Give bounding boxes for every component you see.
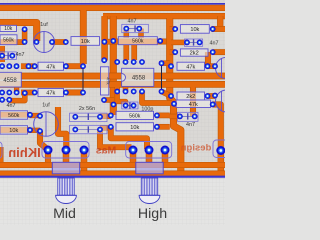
pad R11a xyxy=(168,93,174,99)
pad P1 xyxy=(22,26,28,32)
resistor R3 10k mid xyxy=(71,37,100,46)
wire R13-C6 stub xyxy=(30,113,40,118)
wire 47k4 right elbow xyxy=(213,104,221,149)
pad U2p3 xyxy=(131,59,137,65)
capacitor C10 4n7 xyxy=(178,112,199,121)
wire hi pad1 dn xyxy=(130,150,137,165)
pad R3a xyxy=(63,39,69,45)
wire 56n1-560k2 link xyxy=(100,114,111,119)
svg-text:47k: 47k xyxy=(106,77,111,85)
svg-text:Mas: Mas xyxy=(96,145,117,157)
pad C10b xyxy=(192,114,198,120)
resistor R2 560k xyxy=(0,35,17,45)
jumper link J2 xyxy=(161,63,163,91)
wire IC2pin8 elbow xyxy=(142,92,172,104)
capacitor C5 4n7 xyxy=(2,99,9,101)
pad U2p6 xyxy=(123,89,129,95)
pad R13c xyxy=(154,113,160,119)
wire stub C1 right xyxy=(52,39,66,45)
svg-text:47k: 47k xyxy=(46,91,55,97)
board edge bottom xyxy=(0,176,225,178)
wire R6 left stub xyxy=(170,49,176,55)
wire R7 right trace xyxy=(66,63,83,69)
wire 100p stub a xyxy=(117,92,125,106)
resistor R5 10k tr xyxy=(180,25,209,34)
svg-text:2x 56n: 2x 56n xyxy=(79,106,95,112)
pad U2p4 xyxy=(139,59,145,65)
wire R5 right stub xyxy=(212,26,226,32)
wire R14 left stub xyxy=(0,127,30,133)
pad U2p2 xyxy=(123,59,129,65)
pad J1b xyxy=(80,90,86,96)
wire mid pad1 dn xyxy=(45,150,51,166)
wire mid band 1 xyxy=(0,73,225,80)
pad C1b xyxy=(49,39,55,45)
capacitor C1 1uf xyxy=(34,32,55,53)
pad R14c xyxy=(154,124,160,130)
pad C3b xyxy=(197,40,203,46)
capacitor C2 4n7 xyxy=(122,24,149,32)
wire 56n feed xyxy=(58,107,66,149)
wire hi pad2 dn xyxy=(146,150,153,165)
svg-text:2k2: 2k2 xyxy=(186,94,195,100)
pad C8b xyxy=(97,127,103,133)
pad R3b xyxy=(102,39,108,45)
wire hi pad3 dn xyxy=(162,150,169,165)
pad U2p7 xyxy=(131,89,137,95)
pad R14a xyxy=(27,127,33,133)
pad C6a xyxy=(37,113,43,119)
pad C5b xyxy=(6,97,12,103)
wire 2k2b right stub xyxy=(208,93,216,99)
wire C2b stub dn xyxy=(138,29,144,38)
wire vert VA xyxy=(80,10,87,64)
op-amp U2 4558 xyxy=(122,68,154,86)
pad J1a xyxy=(80,63,86,69)
pad C10a xyxy=(177,114,183,120)
resistor R16 10k xyxy=(0,126,28,134)
pad R5b xyxy=(210,26,216,32)
pad R6b xyxy=(210,49,216,55)
capacitor C7 56n xyxy=(70,113,107,122)
pad J2a xyxy=(159,60,165,66)
pad U1p1 xyxy=(0,63,5,69)
pad R13b xyxy=(108,113,114,119)
svg-text:4n7: 4n7 xyxy=(7,103,16,109)
svg-text:4558: 4558 xyxy=(132,76,146,82)
wire IC2 right pad trace xyxy=(162,60,170,66)
pad C9a xyxy=(123,103,129,109)
wire trace T3 top-left xyxy=(0,23,37,42)
capacitor C8 56n xyxy=(70,125,107,134)
pad R13a xyxy=(27,112,33,118)
svg-text:4n7: 4n7 xyxy=(128,19,137,25)
wire vert V1 from T2 to R9 top xyxy=(101,16,108,60)
potentiometer VR0 outline (partial, off-image left) xyxy=(0,142,2,159)
jumper link J1 xyxy=(82,66,84,92)
pad VR1a xyxy=(44,146,53,155)
wire right vert 2k2-47k xyxy=(205,52,211,66)
resistor R14 10k xyxy=(116,123,154,131)
wire R5 left stub xyxy=(170,26,176,32)
resistor R8 47k xyxy=(177,62,205,70)
pad U1p3 xyxy=(14,63,20,69)
wire C6 down trace xyxy=(40,131,47,149)
resistor R1 10k xyxy=(0,25,17,32)
svg-text:1uf: 1uf xyxy=(40,22,48,28)
wire top rail T2 xyxy=(103,13,225,19)
svg-text:design: design xyxy=(181,143,212,154)
wire left edge drop xyxy=(0,147,4,164)
pad R8a xyxy=(168,63,174,69)
resistor R7 47k xyxy=(38,62,64,70)
pad C2a xyxy=(123,26,129,32)
pad U1p7 xyxy=(14,90,20,96)
wire stub R3mid right xyxy=(105,39,114,45)
wire 4n7-5 left stub xyxy=(170,114,180,119)
wire IC2 pin1 stub dn xyxy=(114,87,120,92)
wire hi link B xyxy=(100,130,132,148)
pad C8a xyxy=(72,127,78,133)
potentiometer VR2 High shaft xyxy=(139,178,160,203)
svg-text:560k: 560k xyxy=(129,113,141,119)
svg-text:10k: 10k xyxy=(9,128,18,134)
wire T2-to-R5 vert xyxy=(217,16,223,28)
wire link pads left col xyxy=(22,29,28,42)
board background xyxy=(0,0,225,179)
resistor R9 vertical xyxy=(101,67,111,95)
pad VR2b xyxy=(145,146,154,155)
svg-text:4n7: 4n7 xyxy=(16,52,25,58)
wire IC1 pin8 elbow xyxy=(9,93,24,101)
svg-text:10k: 10k xyxy=(130,125,139,131)
svg-text:IKhin: IKhin xyxy=(8,145,41,160)
potentiometer VR3 outline (partial) xyxy=(213,140,243,158)
wire 560k2 right stub xyxy=(157,113,170,119)
pad J2b xyxy=(159,89,165,95)
resistor R4 560k xyxy=(118,37,157,45)
pad R9a xyxy=(101,57,107,63)
wire right bus down xyxy=(170,18,181,176)
pad U1p2 xyxy=(6,63,12,69)
pad R11b xyxy=(205,93,211,99)
wire C2a stub dn xyxy=(124,29,130,38)
pad R14b xyxy=(108,124,114,130)
svg-text:10k: 10k xyxy=(4,26,13,32)
pad C12a xyxy=(212,93,218,99)
resistor R12 47k xyxy=(176,100,211,108)
wire IC2 pin2 stub dn xyxy=(123,87,129,92)
pad VR2c xyxy=(161,146,170,155)
svg-text:47k: 47k xyxy=(186,64,195,70)
pad U2p1 xyxy=(114,59,120,65)
pad R12b xyxy=(210,102,216,108)
svg-text:10k: 10k xyxy=(81,39,90,45)
pad C11a xyxy=(212,63,218,69)
pad C6b xyxy=(37,128,43,134)
pad U1p6 xyxy=(6,90,12,96)
svg-text:Mid: Mid xyxy=(53,206,76,222)
resistor R13 560k xyxy=(116,111,154,119)
pad C5a xyxy=(0,97,5,103)
pad R10b xyxy=(63,90,69,96)
svg-text:High: High xyxy=(138,206,167,222)
svg-text:10k: 10k xyxy=(190,27,199,33)
svg-text:560k: 560k xyxy=(132,39,144,45)
pad R5a xyxy=(172,26,178,32)
wire hi link A xyxy=(111,127,147,149)
svg-text:560k: 560k xyxy=(3,38,14,44)
wire IC1 pin7 stub xyxy=(14,87,19,93)
pad R7a xyxy=(32,63,38,69)
wire left edge vert xyxy=(0,46,5,62)
pad C3a xyxy=(184,40,190,46)
pad VR3a xyxy=(216,146,225,155)
wire stub R2 left xyxy=(0,39,25,45)
pad VR2a xyxy=(129,146,138,155)
resistor R10 47k xyxy=(38,89,64,97)
resistor R15 560k xyxy=(0,111,28,119)
svg-text:47k: 47k xyxy=(46,64,55,70)
svg-text:2k2: 2k2 xyxy=(190,51,199,57)
wire mid band 2 xyxy=(0,81,225,88)
wire 56n2-10k4 link xyxy=(100,125,111,130)
svg-text:560k: 560k xyxy=(8,113,20,119)
potentiometer VR1 Mid shaft xyxy=(56,178,77,203)
pad R4b xyxy=(157,38,163,44)
outside background (below board) xyxy=(0,179,225,225)
pad C2b xyxy=(136,26,142,32)
wire 560k row trace xyxy=(113,39,169,45)
wire bottom rail 2 xyxy=(0,171,225,177)
capacitor C11 1uf (partial right edge) xyxy=(216,58,237,79)
wire mid pad3 dn xyxy=(81,150,88,174)
svg-text:1uf: 1uf xyxy=(42,103,50,109)
wire IC2 pin1 stub up xyxy=(123,44,129,60)
wire IC1pin5-R10 xyxy=(21,90,35,96)
board edge top xyxy=(0,3,225,5)
capacitor C6 1uf xyxy=(34,112,59,137)
svg-text:100p: 100p xyxy=(141,106,153,112)
wire vert V2 from T2 to 560k row xyxy=(110,16,117,115)
pad P2 xyxy=(22,39,28,45)
wire R6 right stub xyxy=(213,49,225,55)
wire 47k2 right stub xyxy=(208,63,216,69)
pad C7a xyxy=(72,114,78,120)
pad R9b xyxy=(101,97,107,103)
pad VR1c xyxy=(80,146,89,155)
pad C1a xyxy=(34,39,40,45)
pad C4a xyxy=(0,53,5,59)
pad VR1b xyxy=(62,146,71,155)
wire VR3 pad down xyxy=(218,151,225,175)
op-amp U1 4558 xyxy=(0,72,21,87)
pad R10a xyxy=(32,90,38,96)
wire R9 bottom link xyxy=(104,97,114,103)
svg-text:47k: 47k xyxy=(189,102,198,108)
wire mid pad2 dn xyxy=(63,150,70,164)
wire R14-C6 stub xyxy=(30,128,40,133)
pad R4a xyxy=(110,38,116,44)
pad C4b xyxy=(9,53,15,59)
pad R6a xyxy=(172,49,178,55)
pad VIA1 xyxy=(111,102,117,108)
potentiometer VR1 Mid outline xyxy=(42,142,89,159)
pad R8b xyxy=(205,63,211,69)
wire band2-C10 vert xyxy=(190,87,196,116)
capacitor C9 100p xyxy=(122,102,138,109)
pad PW1 xyxy=(26,63,32,69)
pad U1p5 xyxy=(0,90,5,96)
capacitor C4 4n7 xyxy=(0,52,16,60)
wire IC1pin4-R7 xyxy=(21,63,35,69)
pad U1p8 xyxy=(22,90,28,96)
capacitor C12 1uf (partial right edge) xyxy=(216,90,238,112)
pad U2p8 xyxy=(139,89,145,95)
wire bottom rail 1 xyxy=(0,162,225,168)
potentiometer VR1 Mid body xyxy=(52,162,79,174)
resistor R11 2k2 xyxy=(177,92,205,100)
wire IC2 pin2 stub up xyxy=(131,44,137,60)
wire R13 left stub xyxy=(0,112,30,118)
potentiometer VR2 High outline xyxy=(126,142,172,159)
pad C9b xyxy=(131,103,137,109)
wire 10k4 right stub xyxy=(157,124,170,130)
resistor R6 2k2 xyxy=(180,49,208,57)
pad R12a xyxy=(171,101,177,107)
pad U2p5 xyxy=(114,89,120,95)
potentiometer VR2 High body xyxy=(136,162,163,174)
capacitor C3 4n7 xyxy=(184,39,202,46)
svg-text:4558: 4558 xyxy=(3,78,17,84)
wire top rail T1 xyxy=(0,5,225,11)
pad C7b xyxy=(97,114,103,120)
wire IC2 rb pad trace xyxy=(162,92,170,96)
wire C3 stub xyxy=(171,40,187,46)
pad R7b xyxy=(63,63,69,69)
wire R10 right trace xyxy=(66,90,83,96)
svg-text:4n7: 4n7 xyxy=(186,122,195,128)
svg-text:4n7: 4n7 xyxy=(210,41,219,47)
